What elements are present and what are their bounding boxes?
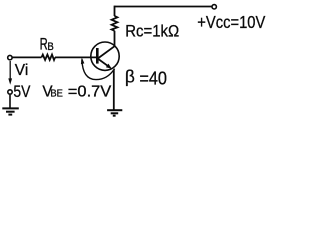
node 5V terminal [8, 90, 12, 94]
svg-text:β: β [125, 67, 135, 87]
svg-text:5V: 5V [13, 82, 31, 101]
transistor Q1 [91, 42, 119, 70]
wire collector top segment [114, 6, 116, 16]
resistor RB [42, 55, 56, 60]
wire emitter to ground [113, 70, 115, 111]
svg-text:+Vcc=10V: +Vcc=10V [197, 12, 265, 32]
wire base wire [12, 56, 41, 58]
node Vi input terminal [8, 55, 12, 59]
svg-text:=0.7V: =0.7V [68, 83, 112, 100]
VBE curved arrow [82, 60, 115, 80]
ground left [2, 108, 19, 114]
svg-text:Rc=1kΩ: Rc=1kΩ [125, 22, 179, 41]
svg-text:B: B [47, 41, 53, 53]
svg-text:BE: BE [50, 88, 63, 100]
node +Vcc terminal [212, 5, 216, 9]
wire top rail from Rc to +Vcc terminal [115, 6, 212, 8]
resistor Rc [112, 16, 118, 31]
ground right [107, 110, 122, 116]
wire 5V to ground [9, 95, 11, 109]
svg-text:Vi: Vi [15, 62, 28, 79]
wire collector lower segment [114, 31, 116, 47]
svg-text:=40: =40 [139, 68, 167, 88]
Vi arrow [9, 61, 11, 80]
